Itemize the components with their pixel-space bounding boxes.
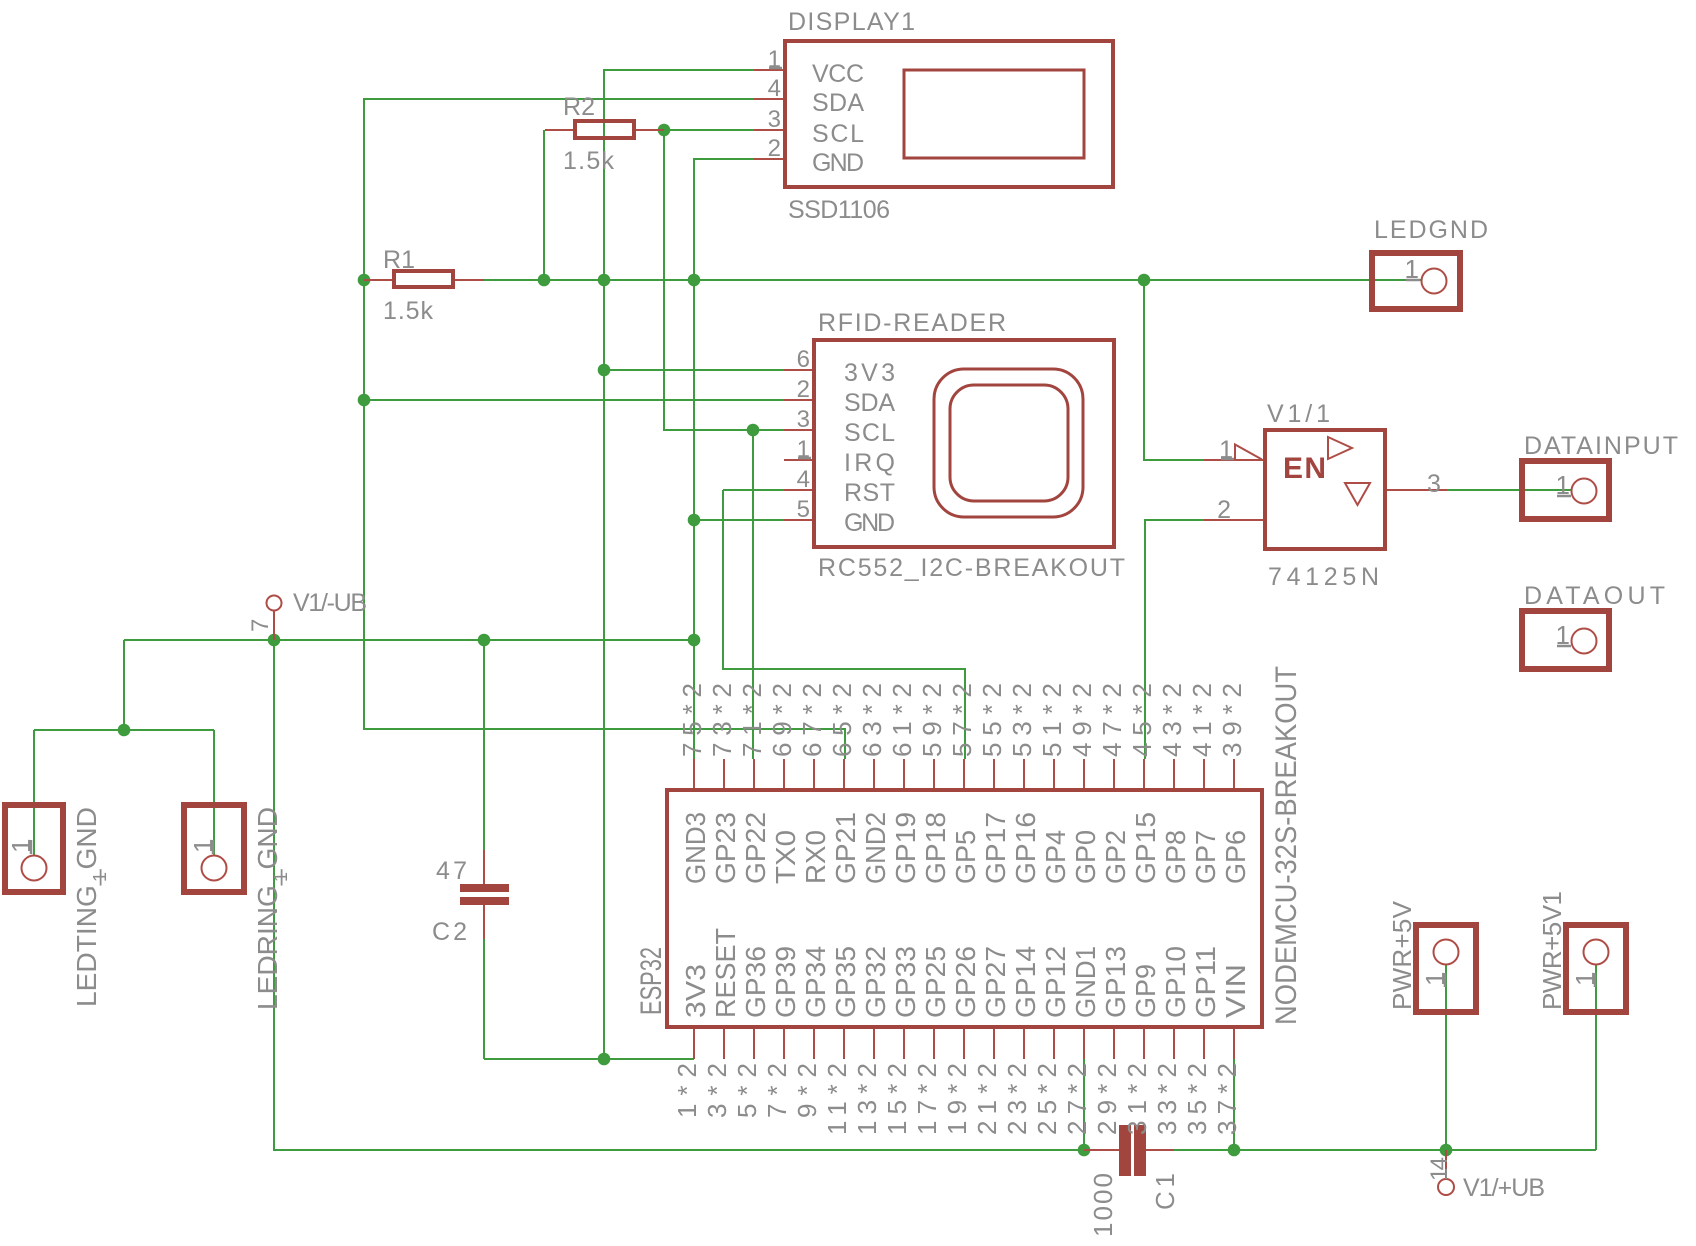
svg-text:GND3: GND3 — [680, 812, 711, 884]
svg-text:1: 1 — [90, 872, 110, 882]
svg-text:25*2: 25*2 — [1032, 1063, 1062, 1135]
DISPLAY1 pin 3 stub — [754, 129, 783, 131]
svg-text:LEDGND: LEDGND — [1374, 216, 1488, 244]
ESP32 top pin 47*2 (GP2) — [1113, 759, 1115, 788]
svg-text:RX0: RX0 — [800, 830, 831, 884]
svg-text:SDA: SDA — [844, 389, 895, 417]
svg-text:GP26: GP26 — [950, 946, 981, 1018]
svg-text:61*2: 61*2 — [887, 683, 917, 757]
svg-text:EN: EN — [1283, 452, 1326, 485]
junction 74125N pin1 rail — [1138, 274, 1151, 287]
svg-text:15*2: 15*2 — [882, 1063, 912, 1135]
74125N pin 2 stub — [1204, 519, 1263, 521]
connector PWR+5V1 box — [1566, 925, 1626, 1012]
svg-text:PWR+5V: PWR+5V — [1387, 900, 1417, 1010]
junction VCC bottom — [598, 1053, 611, 1066]
resistor R1 — [364, 279, 484, 281]
svg-text:37*2: 37*2 — [1212, 1063, 1242, 1135]
svg-text:GP39: GP39 — [770, 946, 801, 1018]
DATAINPUT pin 1 circle — [1572, 479, 1597, 504]
svg-text:V1/-UB: V1/-UB — [293, 589, 367, 617]
74125N pin 3 stub — [1387, 489, 1447, 491]
ESP32 top pin 39*2 (GP6) — [1233, 759, 1235, 788]
svg-text:GP27: GP27 — [980, 946, 1011, 1018]
svg-text:DATAOUT: DATAOUT — [1524, 582, 1665, 610]
ESP32 bottom pin 15*2 (GP33) — [903, 1029, 905, 1059]
ESP32 bottom pin 5*2 (GP36) — [753, 1029, 755, 1059]
ESP32 bottom pin 7*2 (GP39) — [783, 1029, 785, 1059]
svg-text:GP9: GP9 — [1130, 964, 1161, 1018]
svg-text:2: 2 — [797, 376, 810, 403]
ESP32 bottom pin 27*2 (GND1) — [1083, 1029, 1085, 1059]
74125N tristate triangle symbol — [1345, 483, 1370, 505]
junction GND/RFID GND — [688, 514, 701, 527]
svg-text:57*2: 57*2 — [947, 683, 977, 757]
svg-text:GP8: GP8 — [1160, 830, 1191, 884]
IC U1 74125N buffer box — [1265, 430, 1385, 549]
svg-text:R2: R2 — [563, 93, 595, 121]
svg-text:GP23: GP23 — [710, 812, 741, 884]
svg-text:GP33: GP33 — [890, 946, 921, 1018]
wire pullup rail y280 to LEDGND — [484, 279, 1421, 281]
ESP32 bottom pin 23*2 (GP14) — [1023, 1029, 1025, 1059]
svg-text:75*2: 75*2 — [677, 683, 707, 757]
ESP32 bottom pin 37*2 (VIN) — [1233, 1029, 1235, 1059]
svg-text:5*2: 5*2 — [732, 1063, 762, 1118]
ESP32 bottom pin 29*2 (GP13) — [1113, 1029, 1115, 1059]
supply pin V1/-UB circle — [267, 596, 282, 611]
LEDGND pin 1 circle — [1422, 269, 1447, 294]
svg-text:DATAINPUT: DATAINPUT — [1524, 432, 1678, 460]
ESP32 top pin 53*2 (GP16) — [1023, 759, 1025, 788]
ESP32 top pin 75*2 (GND3) — [693, 759, 695, 788]
wire net VCC3V3 to RFID 3V3 — [604, 369, 784, 371]
LEDTING_GND pin 1 circle — [22, 856, 47, 881]
ESP32 top pin 57*2 (GP5) — [963, 759, 965, 788]
junction SDA/RFID SDA — [358, 394, 371, 407]
svg-text:7*2: 7*2 — [762, 1063, 792, 1118]
svg-text:27*2: 27*2 — [1062, 1063, 1092, 1135]
junction -UB/GND rail — [688, 634, 701, 647]
svg-text:1.5k: 1.5k — [563, 147, 615, 175]
svg-text:41*2: 41*2 — [1187, 683, 1217, 757]
svg-text:IRQ: IRQ — [844, 449, 895, 477]
svg-text:GP14: GP14 — [1010, 946, 1041, 1018]
svg-text:RC552_I2C-BREAKOUT: RC552_I2C-BREAKOUT — [818, 554, 1125, 582]
connector DATAINPUT box — [1522, 461, 1609, 519]
ESP32 top pin 67*2 (RX0) — [813, 759, 815, 788]
ESP32 bottom pin 21*2 (GP27) — [993, 1029, 995, 1059]
svg-text:PWR+5V1: PWR+5V1 — [1537, 891, 1567, 1010]
svg-text:GND1: GND1 — [1070, 946, 1101, 1018]
junction GND rail y280 — [688, 274, 701, 287]
svg-text:5: 5 — [797, 496, 810, 523]
svg-text:GP10: GP10 — [1160, 946, 1191, 1018]
svg-text:63*2: 63*2 — [857, 683, 887, 757]
svg-text:NODEMCU-32S-BREAKOUT: NODEMCU-32S-BREAKOUT — [1270, 666, 1303, 1025]
PWR+5V1 pin 1 circle — [1584, 940, 1609, 965]
svg-text:V1/1: V1/1 — [1267, 400, 1330, 428]
svg-text:3: 3 — [768, 106, 781, 133]
ESP32 bottom pin 25*2 (GP12) — [1053, 1029, 1055, 1059]
svg-text:SDA: SDA — [812, 89, 864, 117]
svg-text:GP17: GP17 — [980, 812, 1011, 884]
wire -UB branch horizontal y730 — [34, 729, 214, 731]
svg-text:65*2: 65*2 — [827, 683, 857, 757]
svg-text:4: 4 — [768, 75, 781, 102]
74125N pin 1 stub with enable flag — [1204, 445, 1263, 461]
svg-text:17*2: 17*2 — [912, 1063, 942, 1135]
connector LEDGND box — [1372, 253, 1460, 309]
svg-text:3: 3 — [797, 406, 810, 433]
wire net -UB down-left rail to C1 — [274, 640, 1084, 1150]
RFID antenna coil inner loop — [950, 385, 1068, 501]
wire net VCC3V3 bottom to ESP32 pin 1*2 — [484, 1058, 694, 1060]
DISPLAY1 screen rectangle — [904, 70, 1084, 158]
svg-text:LEDTING_GND: LEDTING_GND — [71, 807, 102, 1007]
wire net GND to RFID GND — [694, 519, 784, 521]
wire to LEDTING_GND pin — [33, 730, 35, 855]
DISPLAY1 pin 2 stub — [754, 158, 783, 160]
junction R1 left — [358, 274, 371, 287]
svg-text:53*2: 53*2 — [1007, 683, 1037, 757]
svg-text:59*2: 59*2 — [917, 683, 947, 757]
svg-text:LEDRING_GND: LEDRING_GND — [252, 807, 283, 1010]
RFID antenna coil outer loop — [934, 369, 1083, 517]
junction SCL — [747, 424, 760, 437]
ESP32 top pin 63*2 (GND2) — [873, 759, 875, 788]
ESP32 top pin 71*2 (GP22) — [753, 759, 755, 788]
ESP32 top pin 45*2 (GP15) — [1143, 759, 1145, 788]
svg-text:GND2: GND2 — [860, 812, 891, 884]
V1/-UB pin stub — [273, 611, 275, 640]
svg-text:SCL: SCL — [844, 419, 895, 447]
svg-text:19*2: 19*2 — [942, 1063, 972, 1135]
V1/+UB pin stub — [1445, 1150, 1447, 1179]
IC ESP32 NODEMCU-32S-BREAKOUT box — [667, 790, 1262, 1027]
svg-text:SCL: SCL — [812, 120, 864, 148]
DISPLAY1 pin 1 stub — [754, 69, 783, 71]
svg-text:47*2: 47*2 — [1097, 683, 1127, 757]
LEDRING_GND pin 1 circle — [202, 856, 227, 881]
wire net SCL down to ESP32 pin 71*2 — [752, 430, 754, 759]
svg-text:GP36: GP36 — [740, 946, 771, 1018]
connector PWR+5V box — [1416, 925, 1476, 1012]
svg-text:43*2: 43*2 — [1157, 683, 1187, 757]
wire net -UB horizontal — [124, 639, 694, 641]
svg-text:R1: R1 — [383, 246, 415, 274]
wire 74125N pin1 from pullup rail — [1144, 281, 1204, 460]
svg-text:3*2: 3*2 — [702, 1063, 732, 1118]
junction -UB left branch — [118, 724, 131, 737]
svg-text:GP5: GP5 — [950, 830, 981, 884]
svg-text:11*2: 11*2 — [822, 1063, 852, 1135]
svg-text:GP11: GP11 — [1190, 946, 1221, 1018]
connector DATAOUT box — [1522, 611, 1609, 669]
wire to LEDRING_GND pin — [213, 730, 215, 855]
junction VCC rail y280 — [598, 274, 611, 287]
wire 74125N pin3 to DATAINPUT — [1447, 489, 1571, 491]
supply pin V1/+UB circle — [1438, 1179, 1454, 1195]
svg-text:C1: C1 — [1150, 1173, 1180, 1210]
ESP32 top pin 61*2 (GP19) — [903, 759, 905, 788]
junction VIN node — [1228, 1144, 1241, 1157]
ESP32 bottom pin 9*2 (GP34) — [813, 1029, 815, 1059]
capacitor C1 — [1084, 1149, 1174, 1151]
svg-text:GP0: GP0 — [1070, 830, 1101, 884]
wire 74125N pin2 to ESP32 pin 45*2 — [1145, 520, 1204, 759]
svg-text:GP32: GP32 — [860, 946, 891, 1018]
ESP32 top pin 59*2 (GP18) — [933, 759, 935, 788]
PWR+5V pin 1 circle — [1434, 940, 1459, 965]
ESP32 bottom pin 19*2 (GP26) — [963, 1029, 965, 1059]
svg-text:GP35: GP35 — [830, 946, 861, 1018]
svg-text:RST: RST — [844, 479, 895, 507]
svg-text:C2: C2 — [432, 918, 467, 946]
svg-text:ESP32: ESP32 — [635, 947, 668, 1015]
svg-text:14: 14 — [1426, 1157, 1453, 1181]
wire net -UB down to C2 — [483, 640, 485, 850]
ESP32 bottom pin 35*2 (GP11) — [1203, 1029, 1205, 1059]
connector LEDRING_GND box — [184, 805, 244, 892]
RFID pin 4 RST stub — [784, 489, 812, 491]
IC DISPLAY1 SSD1106 box — [785, 41, 1113, 187]
svg-text:6: 6 — [797, 346, 810, 373]
svg-text:GP4: GP4 — [1040, 830, 1071, 884]
wire net RST to ESP32 pin 57*2 — [723, 490, 965, 759]
junction R2 rail — [538, 274, 551, 287]
svg-text:2: 2 — [1217, 496, 1231, 524]
ESP32 bottom pin 1*2 (3V3) — [693, 1029, 695, 1059]
svg-text:GP12: GP12 — [1040, 946, 1071, 1018]
ESP32 bottom pin 31*2 (GP9) — [1143, 1029, 1145, 1059]
svg-text:1*2: 1*2 — [672, 1063, 702, 1118]
svg-text:49*2: 49*2 — [1067, 683, 1097, 757]
wire R2 left lead down to pullup rail — [543, 130, 545, 280]
svg-text:GP22: GP22 — [740, 812, 771, 884]
svg-text:1000: 1000 — [1088, 1173, 1118, 1237]
junction PWR+5V node — [1440, 1144, 1453, 1157]
svg-text:GND: GND — [812, 149, 864, 177]
wire net RST to RFID RST — [723, 489, 784, 491]
ESP32 top pin 55*2 (GP17) — [993, 759, 995, 788]
svg-text:45*2: 45*2 — [1127, 683, 1157, 757]
ESP32 top pin 69*2 (TX0) — [783, 759, 785, 788]
capacitor C2 — [483, 850, 485, 939]
svg-text:VIN: VIN — [1220, 964, 1251, 1018]
junction VCC/RFID 3V3 — [598, 364, 611, 377]
svg-text:39*2: 39*2 — [1217, 683, 1247, 757]
svg-text:DISPLAY1: DISPLAY1 — [788, 8, 915, 36]
svg-text:1: 1 — [271, 872, 291, 882]
svg-text:29*2: 29*2 — [1092, 1063, 1122, 1135]
ESP32 bottom pin 11*2 (GP35) — [843, 1029, 845, 1059]
ESP32 bottom pin 13*2 (GP32) — [873, 1029, 875, 1059]
DISPLAY1 pin 4 stub — [754, 98, 783, 100]
wire net SDA to RFID SDA — [364, 399, 784, 401]
svg-text:GP19: GP19 — [890, 812, 921, 884]
svg-text:GP13: GP13 — [1100, 946, 1131, 1018]
wire up to PWR+5V — [1445, 964, 1447, 1150]
svg-text:21*2: 21*2 — [972, 1063, 1002, 1135]
RFID pin 6 3V3 stub — [784, 369, 812, 371]
svg-text:31*2: 31*2 — [1122, 1063, 1152, 1135]
svg-text:GP6: GP6 — [1220, 830, 1251, 884]
wire ESP32 pin 27*2 down to C1 node — [1083, 1059, 1085, 1150]
svg-text:GP25: GP25 — [920, 946, 951, 1018]
svg-text:1.5k: 1.5k — [383, 297, 434, 325]
RFID pin 5 GND stub — [784, 519, 812, 521]
ESP32 top pin 49*2 (GP0) — [1083, 759, 1085, 788]
wire +5V rail bottom — [1174, 1149, 1596, 1151]
wire net GND display-pin2 down to ESP32 pin 75*2 — [694, 159, 754, 759]
wire net SCL display-pin3 to RFID SCL — [664, 130, 784, 430]
svg-text:51*2: 51*2 — [1037, 683, 1067, 757]
svg-text:4: 4 — [797, 466, 810, 493]
svg-text:67*2: 67*2 — [797, 683, 827, 757]
svg-text:GP16: GP16 — [1010, 812, 1041, 884]
svg-text:3: 3 — [1427, 470, 1441, 498]
svg-text:7: 7 — [247, 619, 274, 632]
svg-text:GP15: GP15 — [1130, 812, 1161, 884]
74125N output triangle symbol — [1328, 437, 1352, 459]
svg-text:SSD1106: SSD1106 — [788, 196, 890, 224]
svg-text:69*2: 69*2 — [767, 683, 797, 757]
IC RFID-READER box — [814, 340, 1114, 547]
DATAOUT pin 1 circle — [1572, 629, 1597, 654]
svg-text:GND: GND — [844, 509, 895, 537]
junction C1 left node — [1078, 1144, 1091, 1157]
svg-text:3V3: 3V3 — [680, 964, 711, 1018]
svg-text:GP21: GP21 — [830, 812, 861, 884]
svg-text:RFID-READER: RFID-READER — [818, 309, 1006, 337]
wire ESP32 pin 37*2 VIN down to +5V rail — [1233, 1059, 1235, 1150]
ESP32 bottom pin 17*2 (GP25) — [933, 1029, 935, 1059]
svg-text:VCC: VCC — [812, 60, 864, 88]
svg-text:13*2: 13*2 — [852, 1063, 882, 1135]
ESP32 bottom pin 3*2 (RESET) — [723, 1029, 725, 1059]
svg-text:GP34: GP34 — [800, 946, 831, 1018]
resistor R2 — [545, 129, 664, 131]
svg-text:73*2: 73*2 — [707, 683, 737, 757]
svg-text:2: 2 — [768, 135, 781, 162]
wire -UB branch down x124 — [123, 640, 125, 730]
ESP32 top pin 41*2 (GP7) — [1203, 759, 1205, 788]
ESP32 top pin 51*2 (GP4) — [1053, 759, 1055, 788]
junction -UB stub — [268, 634, 281, 647]
svg-text:55*2: 55*2 — [977, 683, 1007, 757]
svg-text:GP2: GP2 — [1100, 830, 1131, 884]
svg-text:TX0: TX0 — [770, 830, 801, 884]
ESP32 top pin 43*2 (GP8) — [1173, 759, 1175, 788]
wire up to PWR+5V1 — [1595, 964, 1597, 1150]
RFID pin 1 IRQ stub — [784, 459, 812, 461]
connector LEDTING_GND box — [5, 805, 63, 892]
svg-text:RESET: RESET — [710, 928, 741, 1018]
ESP32 top pin 65*2 (GP21) — [843, 759, 845, 788]
svg-text:9*2: 9*2 — [792, 1063, 822, 1118]
svg-text:74125N: 74125N — [1268, 563, 1379, 591]
svg-text:V1/+UB: V1/+UB — [1463, 1174, 1545, 1202]
wire net SDA display-pin4 to ESP32 pin 65*2 — [364, 99, 845, 759]
ESP32 bottom pin 33*2 (GP10) — [1173, 1029, 1175, 1059]
junction -UB/x484 — [478, 634, 491, 647]
ESP32 top pin 73*2 (GP23) — [723, 759, 725, 788]
junction R2/SCL — [658, 124, 671, 137]
svg-text:GP7: GP7 — [1190, 830, 1221, 884]
wire net VCC3V3 display-pin1 to rail x604 — [604, 70, 754, 1059]
svg-text:47: 47 — [436, 857, 467, 885]
svg-text:35*2: 35*2 — [1182, 1063, 1212, 1135]
svg-text:3V3: 3V3 — [844, 359, 895, 387]
wire below C2 to bottom rail — [483, 939, 485, 1059]
svg-text:33*2: 33*2 — [1152, 1063, 1182, 1135]
svg-text:GP18: GP18 — [920, 812, 951, 884]
svg-text:23*2: 23*2 — [1002, 1063, 1032, 1135]
RFID pin 2 SDA stub — [784, 399, 812, 401]
RFID pin 3 SCL stub — [784, 429, 812, 431]
